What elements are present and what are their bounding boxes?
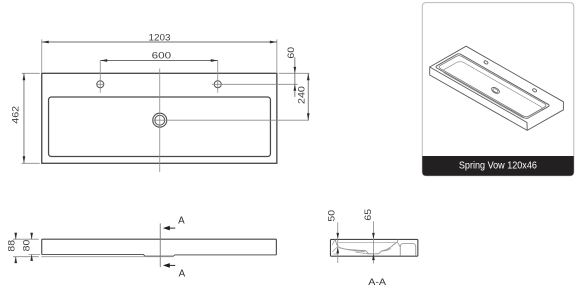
dim 1203 extension lines (42, 39, 277, 72)
section pocket step connector (397, 242, 400, 247)
dim 462 arrows (23, 73, 26, 163)
front view lower bottom line (88 level) (41, 256, 173, 258)
3d sink rim inner (439, 56, 546, 117)
dim 60 line upper (294, 57, 296, 97)
dim 1203 line (42, 41, 277, 43)
dim 65 line (372, 221, 374, 263)
front view right edge (275, 239, 277, 255)
3d sink faucet hole 1 (484, 60, 489, 64)
drain vertical centerline (159, 69, 161, 173)
section cut line A-A (159, 223, 161, 267)
top edge right extension (for 60/240) (279, 72, 310, 74)
plan view outer rect (42, 73, 277, 163)
section rear pocket (400, 244, 416, 256)
faucet hole left crosshair (96, 61, 105, 93)
drain outer circle (153, 113, 167, 127)
svg-text:65: 65 (363, 209, 373, 221)
3d sink faucet hole 2 (532, 88, 537, 92)
dim 600 arrows (100, 59, 218, 62)
front view bottom line with drain recess (42, 255, 277, 257)
front dims extension lines (13, 239, 40, 257)
svg-text:60: 60 (286, 47, 296, 59)
dim 80 arrows (30, 233, 33, 261)
dim 88 arrows (14, 233, 17, 263)
front view left edge (41, 239, 43, 254)
section projected rear rim line (338, 242, 396, 244)
section sketchy interior lines (332, 240, 391, 254)
svg-text:Spring Vow 120x46: Spring Vow 120x46 (459, 161, 537, 172)
svg-text:462: 462 (10, 106, 20, 124)
dim 88 line (15, 233, 17, 263)
faucet hole left (97, 81, 104, 88)
section interior front wall and basin bottom (335, 240, 398, 254)
dim 600 line (100, 60, 218, 62)
drain horizontal centerline / 240 extension (152, 119, 309, 121)
svg-text:80: 80 (22, 240, 32, 252)
svg-text:A: A (179, 269, 186, 280)
front view top edge (42, 238, 277, 240)
svg-text:240: 240 (296, 86, 306, 104)
3d sink top front edge (430, 67, 528, 130)
faucet hole right crosshair (212, 61, 298, 93)
dim 65 arrows (372, 233, 375, 260)
svg-text:88: 88 (6, 240, 16, 252)
dim 1203 arrows (42, 41, 277, 44)
3d sink drain (491, 86, 501, 94)
section A-A outer outline (330, 239, 417, 256)
dim 50 line (337, 222, 339, 263)
svg-text:A: A (178, 215, 185, 226)
product panel border (422, 3, 574, 176)
dim 462 extension lines (22, 73, 40, 163)
dim 80 line (31, 233, 33, 261)
dim 462 line (23, 73, 25, 163)
section arrow bottom (166, 264, 175, 266)
3d sink silhouette (430, 46, 564, 130)
dim 60 arrows (294, 67, 297, 91)
svg-text:50: 50 (327, 210, 337, 222)
product label bar (422, 156, 574, 176)
plan view inner basin rect (49, 97, 271, 157)
dim 240 arrows (307, 73, 310, 120)
faucet hole right (214, 81, 221, 88)
svg-text:600: 600 (152, 50, 172, 61)
svg-text:A-A: A-A (368, 276, 387, 287)
drain inner circle (155, 115, 165, 125)
dim 240 line (307, 73, 309, 120)
svg-text:1203: 1203 (149, 32, 171, 43)
3d sink basin floor (443, 62, 542, 119)
section arrow top (166, 227, 175, 229)
3d sink rim outer (436, 54, 549, 119)
dim 50 arrows (336, 233, 339, 254)
